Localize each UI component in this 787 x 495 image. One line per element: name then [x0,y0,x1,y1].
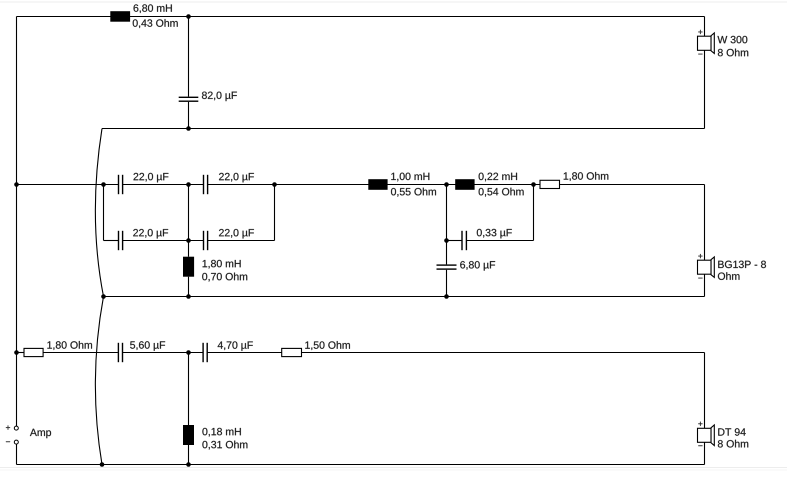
capacitor C1 82,0 uF [179,97,199,102]
capacitor C6 0,33 uF [461,231,467,250]
wire tweeter feed segment 2 [43,352,118,354]
label DT94 name [718,428,745,435]
label DT94 impedance [718,440,748,448]
label L4 value [479,173,517,182]
junction dot node B row2 [186,238,191,243]
wire vertical node B lower [188,277,190,297]
junction dot tweeter branch [186,350,191,355]
junction node A [101,182,106,187]
label C3 value [219,173,254,183]
label C9 value [218,341,253,351]
wire right drop to W300 [704,17,706,37]
capacitor C8 5,60 uF [118,343,124,362]
wire midrange feed segment 4 [560,184,705,186]
junction dot left rail to tweeter [14,350,19,355]
label L4 resistance [479,188,524,197]
canvas bottom border line [0,467,787,468]
wire W300 to return rail [704,50,706,128]
speaker U1 W300 [698,33,715,54]
resistor R2 1,80 Ohm tweeter [24,348,43,356]
label L3 value [391,173,429,182]
label C6 value [477,229,512,239]
label L1 resistance [133,19,178,28]
resistor R3 1,50 Ohm [282,348,302,356]
junction node B [186,182,191,187]
wire tweeter feed segment 1 [17,352,25,354]
junction node D [444,182,449,187]
wire vertical node C [274,185,276,241]
junction node C [272,182,277,187]
wire tweeter feed segment 4 [208,352,282,354]
label W300 plus terminal [698,30,702,34]
label W300 impedance [718,49,748,57]
wire right drop to BG13P [704,185,706,261]
label C7 value [460,261,495,271]
label DT94 plus terminal [698,422,702,426]
inductor L3 1,00 mH [368,179,387,190]
label DT94 minus terminal [698,444,702,447]
label L5 resistance [202,441,247,450]
label C1 value [202,92,237,102]
speaker U2 BG13P [698,257,715,278]
amp minus terminal [14,440,18,444]
junction dot curve to bottom rail [100,462,105,467]
wire curved return lower [95,297,103,465]
junction dot L2 bottom [186,294,191,299]
junction dot 82uF to return rail [186,126,191,131]
wire vertical node A [103,185,105,241]
wire woofer return rail [102,128,705,130]
junction dot bottom rail mid left [101,294,106,299]
label BG13P plus terminal [698,254,702,258]
wire BG13P to bottom rail [704,274,706,296]
capacitor C7 6,80 uF [437,264,457,269]
wire vertical 0,18mH upper [188,353,190,426]
label L5 value [202,428,240,437]
wire tweeter feed segment 3 [123,352,203,354]
inductor L2 1,80 mH vertical [183,257,194,277]
wire vertical node D lower [446,270,448,297]
wire DT94 to bottom rail [704,442,706,464]
wire bottom rail [17,464,705,466]
wire midrange feed segment 1 [17,184,119,186]
label C8 value [130,341,165,351]
wire top rail [17,16,705,18]
wire midrange feed segment 3 [208,184,540,186]
junction dot L5 to bottom rail [186,462,191,467]
capacitor C2 22,0 uF row1 left [118,175,124,194]
speaker U3 DT94 [698,425,715,446]
amp minus sign [6,440,10,443]
resistor R1 1,80 Ohm midrange [540,180,560,188]
wire midrange feed segment 2 [123,184,203,186]
wire curved return upper [95,129,103,297]
label BG13P impedance [718,272,740,280]
label BG13P name [718,261,766,268]
label BG13P minus terminal [698,277,702,280]
label L3 resistance [391,188,436,197]
wire vertical node D upper [446,185,448,265]
inductor L1 6,80 mH [110,11,130,22]
wire lower cap row segment 3 [208,240,275,242]
junction node E [531,182,536,187]
capacitor C4 22,0 uF row2 left [118,231,124,250]
label R2 value [47,341,92,350]
wire 0,33uF row left [447,240,462,242]
junction dot C7 bottom [444,294,449,299]
wire right drop to DT94 [704,353,706,429]
wire vertical node B upper [188,185,190,257]
junction dot left rail to midrange [14,182,19,187]
wire midrange bottom rail [104,296,705,298]
label C4 value [133,229,168,239]
wire tweeter feed segment 5 [302,352,705,354]
label C5 value [219,229,254,239]
label R1 value [564,172,609,181]
label C2 value [134,173,169,183]
inductor L4 0,22 mH [455,179,474,190]
label L1 value [134,4,172,13]
label L2 resistance [202,273,247,282]
amp plus terminal [14,426,18,430]
label L2 value [203,260,241,269]
wire 82uF branch lower [188,102,190,129]
capacitor C5 22,0 uF row2 right [203,231,208,250]
wire lower cap row segment 2 [123,240,203,242]
wire 82uF branch upper [188,17,190,97]
canvas top border line [0,2,787,3]
wire lower cap row segment 1 [104,240,119,242]
amp plus sign [6,425,10,429]
wire 0,33uF row right [467,240,534,242]
inductor L5 0,18 mH vertical [183,425,194,445]
label R3 value [305,341,350,350]
wire left rail below minus terminal [16,444,18,464]
label W300 minus terminal [698,53,702,56]
wire vertical node E [533,185,535,241]
wire vertical 0,18mH lower [188,445,190,465]
label Amp [30,429,51,438]
capacitor C3 22,0 uF row1 right [203,175,208,194]
label W300 name [717,36,747,43]
junction dot node D row2 [444,238,449,243]
wire left rail [16,17,18,427]
capacitor C9 4,70 uF [202,343,208,362]
junction dot after L1 [186,14,191,19]
